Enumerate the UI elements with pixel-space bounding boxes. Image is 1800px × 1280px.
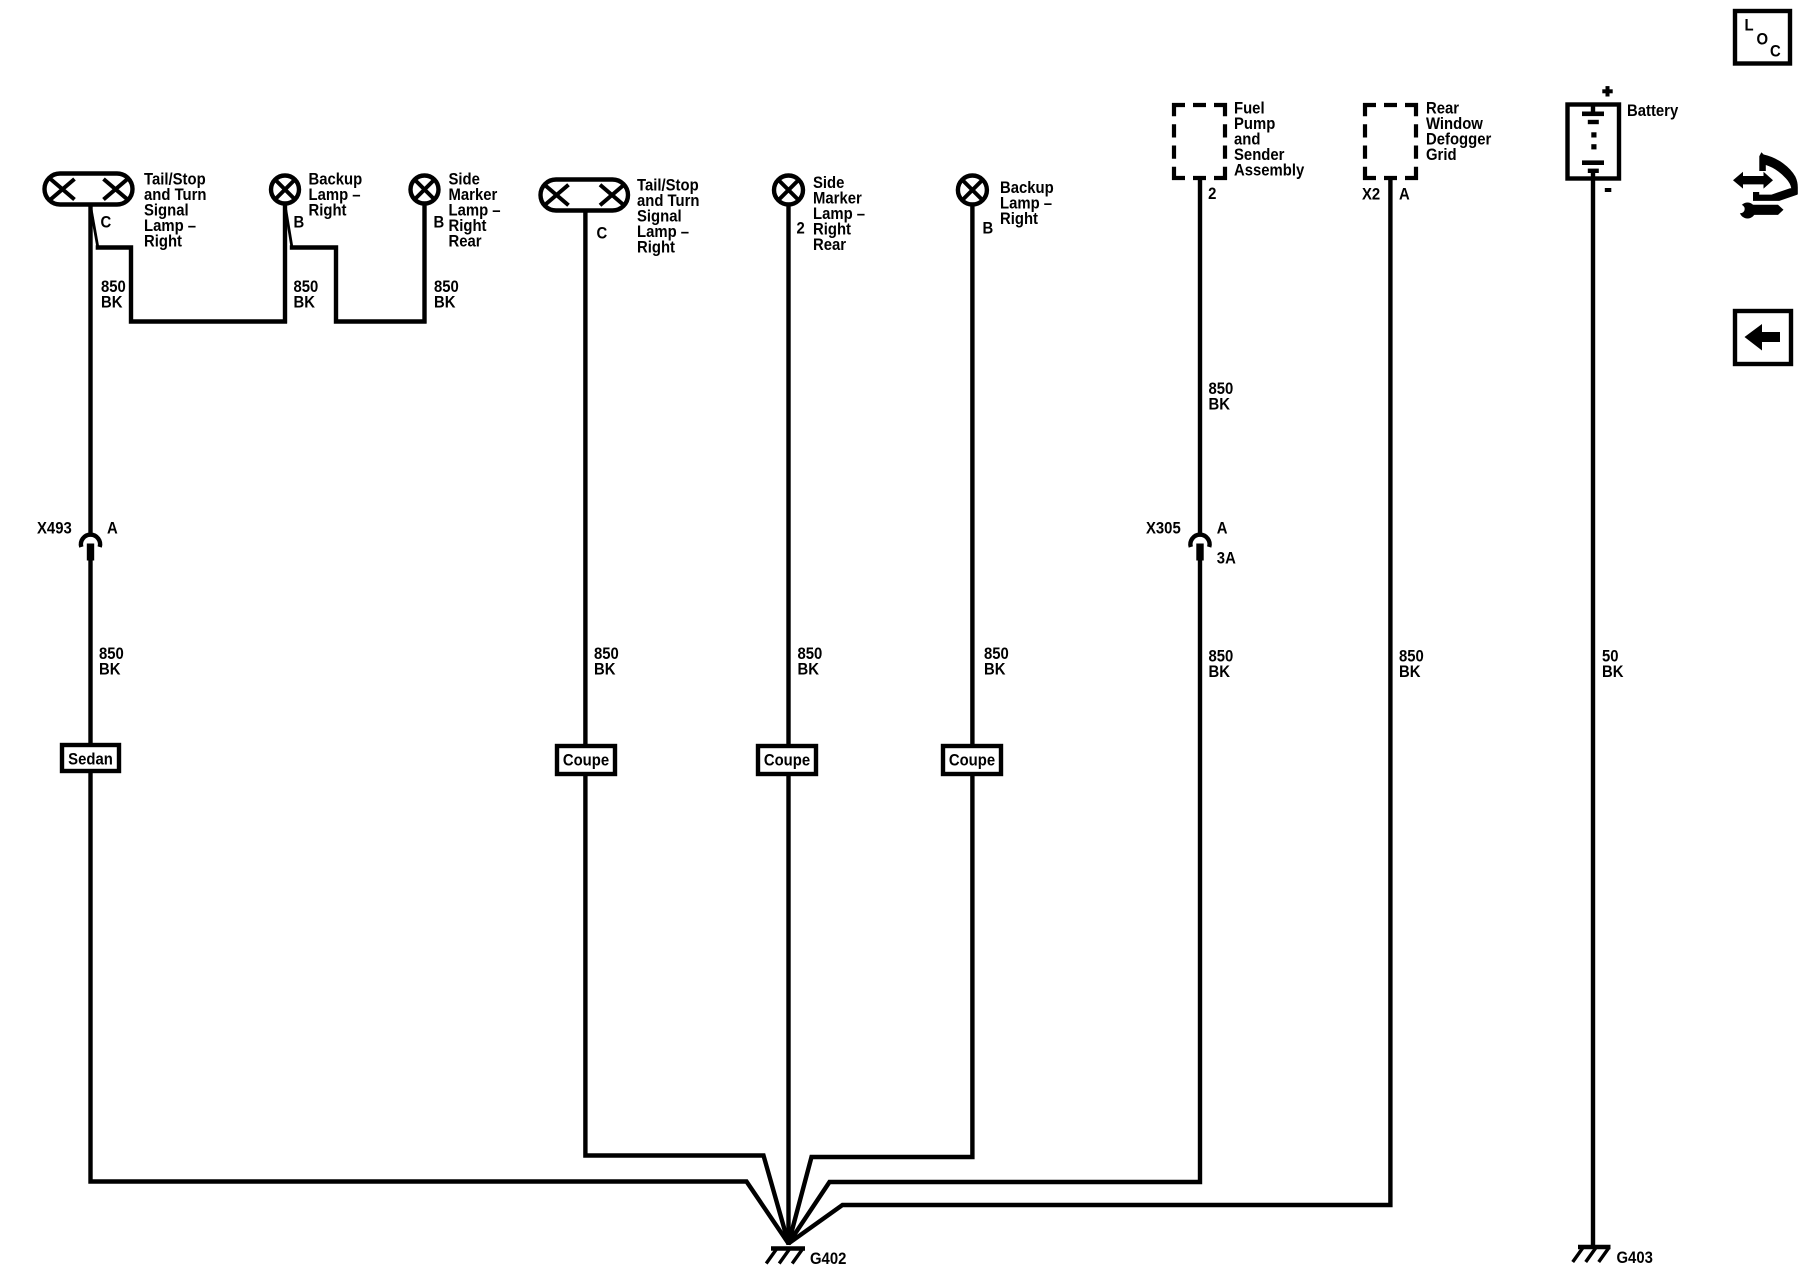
wire backup1 pin B pigtail slant [286,210,292,247]
svg-text:B: B [983,220,994,238]
svg-text:Rear: Rear [813,236,846,254]
wire coupe tail/stop 850 BK (lamp C to G402) [585,212,788,1244]
wire battery 50 BK (battery minus to G403) [1591,179,1595,1245]
lamp E7: backup lamp right (coupe) [958,176,987,205]
svg-text:C: C [1770,43,1781,61]
svg-text:X493: X493 [37,520,72,538]
ground G403 symbol [1573,1247,1611,1262]
svg-text:BK: BK [798,661,820,679]
wire sedan 850 BK upper (lamp C to X493) [88,204,92,534]
wire side marker lamp right rear vertical (pin B) [422,204,426,324]
svg-text:BK: BK [434,294,456,312]
wire step from lamp1 C to backup lamp vertical [96,248,287,322]
coupe option box 2 [758,746,816,774]
ground G402 symbol [766,1249,805,1264]
svg-text:BK: BK [1208,663,1230,681]
svg-text:BK: BK [294,294,316,312]
coupe option box 3 [943,746,1001,774]
svg-text:X2: X2 [1362,186,1380,204]
svg-text:A: A [1399,186,1410,204]
svg-text:BK: BK [1208,396,1230,414]
fuel pump and sender assembly dashed box [1172,103,1227,180]
svg-text:C: C [596,225,607,243]
svg-text:Coupe: Coupe [764,752,810,770]
svg-text:3A: 3A [1217,550,1236,568]
svg-text:Right: Right [144,233,183,251]
svg-text:BK: BK [984,661,1006,679]
lamp E5: side marker lamp right rear (sedan) [411,176,439,204]
svg-text:L: L [1744,17,1753,35]
svg-text:BK: BK [99,661,121,679]
svg-text:Right: Right [637,239,676,257]
svg-text:Coupe: Coupe [949,752,995,770]
svg-text:G403: G403 [1617,1249,1653,1267]
svg-text:Coupe: Coupe [563,752,609,770]
coupe option box 1 [557,746,615,774]
svg-text:Grid: Grid [1426,146,1457,164]
connector X305 female arc [1190,535,1209,547]
service info icon: curved band arrow [1759,152,1798,194]
lamp E4: backup lamp right (sedan) [271,176,299,204]
svg-text:A: A [107,520,118,538]
svg-text:Right: Right [1000,210,1039,228]
svg-text:B: B [434,214,445,232]
svg-text:BK: BK [1602,663,1624,681]
wire fuel pump 850 BK lower (X305 to G402) [789,559,1201,1244]
svg-text:Rear: Rear [448,233,481,251]
wire backup lamp right vertical (pin B) [283,204,287,324]
wire sedan 850 BK lower (X493 through Sedan box to G402) [91,559,789,1244]
svg-text:Sedan: Sedan [68,751,113,769]
service info icon: band tail [1753,188,1798,201]
back arrow box [1735,311,1791,364]
lamp E6: side marker lamp right rear (coupe) [774,176,803,205]
svg-text:C: C [101,214,112,232]
svg-text:BK: BK [594,661,616,679]
svg-text:BK: BK [1399,663,1421,681]
connector X493 male pin [87,544,94,561]
svg-text:X305: X305 [1146,520,1181,538]
lamp E1: tail/stop and turn signal lamp right (sedan) [45,174,133,205]
svg-text:Assembly: Assembly [1234,162,1304,180]
svg-text:B: B [294,214,305,232]
wire coupe side marker 850 BK (pin 2 to G402) [786,204,790,1245]
wire step from backup1 B to side marker vertical [290,248,427,322]
svg-text:Right: Right [308,202,347,220]
svg-text:2: 2 [797,220,805,238]
svg-text:G402: G402 [810,1250,846,1268]
battery B1 symbol [1568,104,1620,179]
battery plus terminal mark [1602,86,1612,96]
service info icon: wrench [1736,203,1783,219]
connector X493 female arc [81,535,100,547]
svg-text:Battery: Battery [1627,102,1678,120]
wire fuel pump 850 BK upper (pin 2 to X305) [1198,179,1202,534]
svg-text:BK: BK [101,294,123,312]
battery minus terminal mark [1605,188,1612,192]
sedan option box [62,745,119,771]
wire coupe backup 850 BK (pin B to G402) [789,204,973,1244]
LOC legend box [1735,11,1790,64]
svg-text:2: 2 [1208,185,1216,203]
wire rear defogger 850 BK (pin A to G402) [789,179,1391,1244]
rear window defogger grid dashed box [1363,103,1418,180]
wire lamp1 pin C pigtail slant [91,210,98,247]
svg-text:A: A [1217,520,1228,538]
connector X305 male pin 3A [1196,544,1203,561]
service info icon: double arrow [1733,172,1773,189]
svg-text:O: O [1757,31,1769,49]
lamp E2: tail/stop and turn signal lamp right (coupe) [541,180,629,211]
